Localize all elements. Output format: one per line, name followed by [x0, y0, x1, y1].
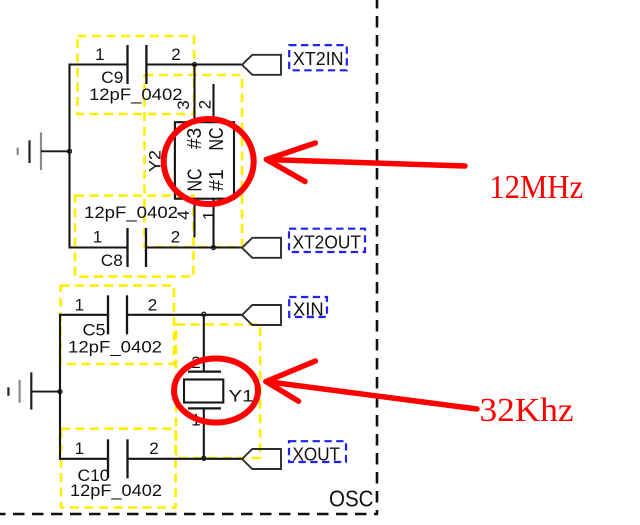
svg-text:#1: #1: [206, 169, 228, 191]
net label XOUT: [289, 441, 346, 464]
wire C8 pin2 to port XT2OUT: [146, 246, 242, 248]
sheet border (OSC block outline): [0, 0, 378, 514]
capacitor C10: [108, 439, 128, 478]
ground GND2: [8, 372, 31, 409]
svg-text:2: 2: [195, 100, 214, 109]
highlight box around C10: [61, 429, 176, 508]
wire GND1 to left rail: [41, 150, 70, 152]
svg-text:12pF_0402: 12pF_0402: [84, 203, 178, 222]
svg-text:2: 2: [149, 439, 158, 458]
svg-text:NC: NC: [206, 128, 228, 151]
wire C5 pin1: [59, 314, 108, 316]
annotation circle around Y1: [174, 359, 258, 423]
svg-text:Y1: Y1: [229, 387, 254, 406]
svg-text:2: 2: [171, 45, 180, 64]
svg-text:C8: C8: [101, 251, 123, 270]
annotation circle around Y2: [164, 119, 254, 204]
wire Y2 pin1 to XT2OUT net: [212, 199, 214, 248]
svg-text:1: 1: [199, 211, 218, 220]
svg-text:2: 2: [171, 228, 180, 247]
svg-text:XT2IN: XT2IN: [293, 49, 344, 69]
junction GND2 at left rail: [58, 390, 62, 394]
svg-text:1: 1: [95, 45, 104, 64]
crystal Y1 body: [184, 372, 223, 409]
capacitor C9: [128, 45, 147, 84]
svg-text:XIN: XIN: [293, 300, 324, 320]
port XT2OUT: [242, 238, 281, 258]
ground GND1: [18, 132, 41, 170]
svg-text:NC: NC: [185, 169, 207, 192]
port XOUT: [242, 449, 281, 469]
highlight box around C9: [78, 36, 195, 114]
highlight box around C8: [75, 196, 194, 277]
svg-text:12MHz: 12MHz: [489, 169, 583, 206]
wire Y2 pin3 to XT2IN net: [193, 65, 195, 123]
svg-text:12pF_0402: 12pF_0402: [89, 85, 183, 104]
wire C8 pin1: [69, 246, 128, 248]
junction on XIN net at Y1 pin2: [202, 312, 206, 316]
net label XT2OUT: [289, 229, 365, 253]
svg-text:XOUT: XOUT: [293, 445, 341, 465]
wire Y1 pin1 to XOUT net: [203, 408, 205, 458]
svg-text:#3: #3: [184, 128, 206, 150]
svg-text:4: 4: [174, 210, 193, 219]
junction GND1 at left rail: [68, 149, 72, 153]
svg-text:XT2OUT: XT2OUT: [293, 233, 362, 253]
wire GND2 to left rail: [31, 391, 60, 393]
highlight box around Y2: [145, 75, 243, 247]
annotation arrow to Y2: [267, 143, 466, 182]
capacitor C5: [108, 295, 127, 334]
svg-text:12pF_0402: 12pF_0402: [68, 338, 162, 357]
wire C10 pin2 to port XOUT: [128, 458, 242, 460]
highlight box around C5: [61, 286, 174, 364]
wire Y2 pin2 stub: [212, 84, 214, 122]
wire left rail (bottom circuit): [59, 314, 61, 460]
wire left rail (top circuit): [68, 64, 70, 249]
wire Y2 pin4 stub: [193, 199, 195, 238]
svg-text:32Khz: 32Khz: [480, 392, 574, 429]
wire C5 pin2 to port XIN: [127, 314, 242, 316]
svg-text:1: 1: [93, 228, 102, 247]
wire C9 pin1: [69, 63, 128, 65]
port XIN: [242, 305, 281, 325]
junction on XT2IN net at Y2 pin3: [193, 63, 197, 67]
crystal Y2 body: [175, 122, 234, 199]
wire C9 pin2 to port XT2IN: [146, 63, 241, 65]
net label XT2IN: [289, 45, 347, 70]
svg-text:OSC: OSC: [329, 486, 374, 512]
svg-text:C9: C9: [101, 68, 123, 87]
svg-text:3: 3: [174, 100, 193, 109]
junction on XOUT net at Y1 pin1: [202, 456, 206, 460]
wire C10 pin1: [59, 458, 108, 460]
capacitor C8: [128, 228, 147, 267]
net label XIN: [289, 297, 327, 320]
junction on XT2OUT net at Y2 pin1: [212, 246, 216, 250]
svg-text:2: 2: [148, 295, 157, 314]
wire Y1 pin2 to XIN net: [203, 315, 205, 372]
svg-text:1: 1: [75, 439, 84, 458]
port XT2IN: [242, 55, 281, 75]
annotation arrow to Y1: [266, 361, 477, 409]
highlight box around Y1: [176, 325, 260, 459]
svg-text:12pF_0402: 12pF_0402: [70, 481, 162, 500]
svg-text:1: 1: [75, 295, 84, 314]
